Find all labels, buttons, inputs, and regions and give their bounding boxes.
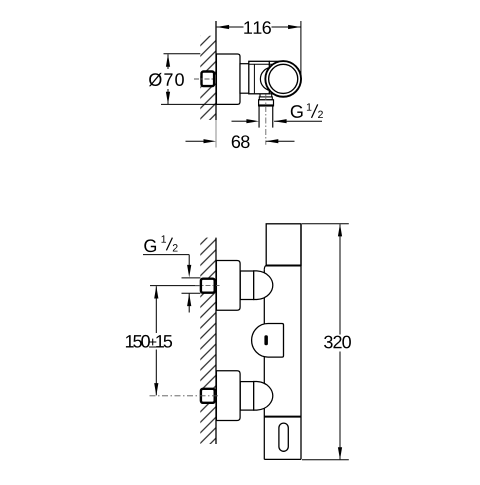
square wall nut 2: [201, 389, 215, 403]
dimension Ø70: [149, 54, 217, 105]
bottom plate bottom edge: [264, 458, 301, 460]
wall line bottom: [215, 238, 217, 444]
outlet slot: [279, 423, 288, 451]
handle outer circle: [265, 61, 301, 97]
wall anchor tab 2: [214, 391, 217, 401]
button black mark: [264, 335, 268, 345]
valve body block (side view): [249, 61, 269, 94]
centerline inlet 2: [150, 395, 220, 397]
union nut 2: [240, 382, 253, 411]
square wall nut 1: [201, 279, 215, 293]
G1/2 leader bottom: [143, 255, 191, 313]
square wall nut top: [202, 72, 215, 87]
handle inner circle: [269, 64, 298, 93]
centerline through nut top: [194, 78, 220, 80]
G 1/2 label top: [291, 103, 323, 118]
escutcheon 1 (front): [216, 261, 240, 311]
wall hatching top: [200, 36, 216, 120]
escutcheon (side view): [216, 54, 240, 104]
wall anchor tab top: [214, 74, 217, 84]
dimension 68: [186, 135, 295, 148]
neck between escutcheon and body: [240, 64, 249, 93]
temperature button: [252, 324, 284, 358]
outlet pipe: [258, 106, 260, 128]
pipe centerline: [265, 95, 267, 145]
G1/2 pipe extension lines bottom: [182, 277, 201, 279]
body left edge: [263, 270, 265, 460]
G1/2 leader arrows top: [232, 119, 323, 123]
barrel back circle: [260, 67, 283, 90]
body top silhouette line: [269, 60, 281, 62]
centerline inlet 1: [195, 285, 220, 287]
body bottom silhouette line: [269, 93, 276, 95]
barrel inner vertical line: [253, 64, 255, 93]
dome 2: [254, 382, 273, 411]
bottom plate thick top line: [264, 416, 301, 418]
outlet neck under body: [259, 94, 261, 97]
dimension 320: [302, 224, 351, 460]
dimension 116: [217, 21, 301, 78]
body shoulder curve: [264, 265, 266, 269]
barrel top line: [249, 63, 277, 65]
body right edge: [300, 224, 302, 460]
dimension 150±15: [126, 286, 200, 396]
body cap: [266, 224, 301, 266]
wall extension line (thin) for 68 dim: [215, 120, 217, 148]
wall anchor tab 1: [214, 281, 217, 291]
body column fill: [264, 265, 301, 459]
escutcheon 2 (front): [216, 371, 240, 421]
outlet step: [259, 97, 272, 100]
wall hatching bottom: [200, 238, 216, 444]
union nut 1: [240, 271, 253, 300]
wall line top: [215, 21, 217, 120]
outlet nut: [259, 100, 274, 106]
dome 1: [254, 271, 273, 300]
G 1/2 label bottom: [144, 235, 177, 252]
cap bottom thick line: [266, 265, 301, 267]
